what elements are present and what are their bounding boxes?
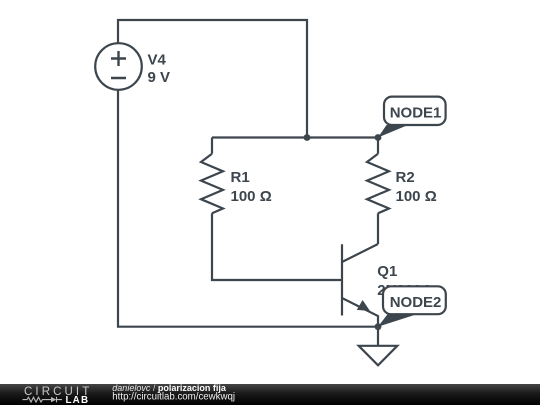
svg-text:NODE1: NODE1 — [390, 105, 442, 122]
svg-text:100 Ω: 100 Ω — [396, 188, 437, 205]
svg-text:R2: R2 — [396, 169, 415, 186]
node junction dot x307 — [304, 134, 311, 141]
svg-text:V4: V4 — [148, 51, 167, 68]
wire R2 bottom lead to collector — [377, 213, 379, 244]
node junction dot NODE1 — [375, 134, 382, 141]
logo mini resistor + diode — [23, 397, 63, 403]
resistor R2 — [367, 154, 389, 214]
svg-text:LAB: LAB — [66, 395, 90, 405]
wire mid horizontal R1 top to R2 top — [212, 136, 378, 138]
transistor Q1 body — [341, 244, 343, 315]
emitter arrow of Q1 — [357, 300, 370, 311]
wire top loop from V4 plus terminal to node x=307 — [118, 20, 307, 138]
ground — [359, 327, 398, 366]
svg-text:9 V: 9 V — [148, 69, 171, 86]
wire R1 top lead — [211, 138, 213, 154]
wire R2 top lead — [377, 138, 379, 154]
voltage source V4 — [95, 43, 142, 90]
resistor R1 — [201, 154, 223, 214]
wire R1 bottom lead to base rail — [212, 213, 342, 280]
svg-text:http://circuitlab.com/cewkwqj: http://circuitlab.com/cewkwqj — [112, 391, 235, 402]
wire left side from V4 minus down and bottom rail to emitter node — [118, 90, 378, 327]
net flag NODE2 — [378, 286, 446, 326]
node junction dot NODE2 — [375, 323, 382, 330]
svg-text:Q1: Q1 — [377, 263, 397, 280]
svg-text:R1: R1 — [231, 169, 250, 186]
svg-text:NODE2: NODE2 — [390, 294, 442, 311]
svg-text:100 Ω: 100 Ω — [231, 188, 272, 205]
net flag NODE1 — [378, 97, 446, 138]
